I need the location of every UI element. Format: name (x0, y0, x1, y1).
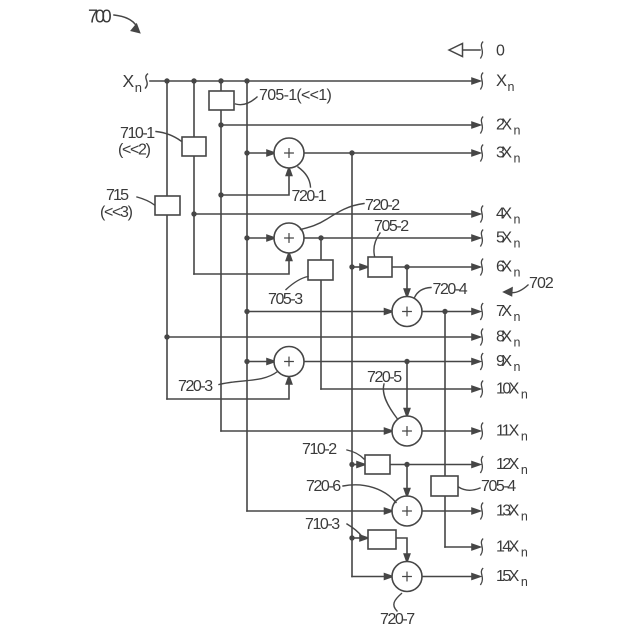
label 720-1 (292, 167, 327, 205)
label 720-6 (306, 478, 396, 503)
shift block 715 (155, 196, 180, 215)
svg-text:6X: 6X (496, 259, 512, 276)
label 710-1 (118, 125, 181, 159)
label 720-4 (415, 281, 468, 298)
wire 3Xn into 720-7 left (352, 574, 393, 580)
svg-text:710-3: 710-3 (305, 516, 340, 533)
wire 2Xn output line (221, 117, 483, 133)
wire 6Xn output line (392, 259, 483, 275)
svg-text:n: n (521, 463, 528, 477)
label 1Xn (496, 72, 515, 94)
label 705-3 (268, 277, 308, 309)
wire vertical 3Xn feed (x=352) (351, 153, 353, 577)
wire 7Xn output line (422, 304, 483, 320)
adder 720-3 (274, 347, 304, 377)
wire 13Xn output line (422, 503, 483, 519)
figure label 700 (88, 7, 140, 33)
svg-text:705-4: 705-4 (481, 478, 516, 495)
label 11Xn (496, 423, 528, 444)
label 13Xn (496, 503, 528, 524)
svg-text:n: n (514, 212, 521, 226)
node Xn bus to 715 (164, 78, 169, 83)
svg-text:X: X (496, 72, 507, 90)
adder 720-7 (392, 562, 422, 592)
label 6Xn (496, 259, 521, 280)
svg-text:715: 715 (106, 187, 129, 204)
label 720-2 (301, 197, 401, 230)
svg-text:705-3: 705-3 (268, 291, 303, 308)
wire 6Xn into 720-4 top (404, 267, 410, 297)
wire 3Xn into 705-2 (352, 264, 368, 270)
wire 14Xn output line (445, 539, 483, 555)
label 705-1 (236, 87, 332, 105)
label 715 (100, 187, 155, 221)
node 12Xn to 720-6 (404, 462, 409, 467)
svg-text:9X: 9X (496, 353, 512, 370)
svg-text:n: n (514, 123, 521, 137)
svg-text:7X: 7X (496, 303, 512, 320)
label 12Xn (496, 456, 528, 477)
node 5Xn tap (318, 235, 323, 240)
label 705-2 (374, 218, 409, 256)
adder 720-6 (392, 496, 422, 526)
svg-text:n: n (514, 236, 521, 250)
wire Xn into 720-4 left (247, 309, 393, 315)
wire 9Xn output line (303, 354, 483, 370)
node 3Xn to 710-3 (349, 535, 354, 540)
adder 720-2 (274, 223, 304, 253)
node 702 label with arrow (504, 275, 554, 296)
label 10Xn (496, 381, 528, 402)
svg-text:720-2: 720-2 (365, 197, 400, 214)
wire 4Xn into 720-2 bottom (194, 253, 292, 275)
svg-text:n: n (514, 265, 521, 279)
svg-text:n: n (521, 575, 528, 589)
wire 9Xn into 720-5 top (404, 362, 410, 417)
wire vertical from Xn bus into 710-1 and down to 4Xn (x=194) (193, 81, 195, 274)
wire 2Xn into 720-1 bottom (221, 168, 292, 196)
svg-text:n: n (521, 429, 528, 443)
input Xn label (123, 71, 148, 95)
adder 720-1 (274, 138, 304, 168)
wire 8Xn into 720-3 bottom (167, 376, 292, 399)
node Xn to 720-1 (244, 150, 249, 155)
svg-text:5X: 5X (496, 230, 512, 247)
wire vertical 7Xn through 705-4 down to 14Xn (x=445) (444, 312, 446, 548)
svg-text:(<<3): (<<3) (100, 204, 133, 221)
shift block 705-3 (308, 260, 333, 280)
label 705-4 (459, 478, 517, 495)
svg-text:2X: 2X (496, 117, 512, 134)
svg-text:11X: 11X (496, 423, 520, 440)
svg-text:700: 700 (88, 7, 112, 27)
label 5Xn (496, 230, 521, 251)
shift block 705-2 (368, 257, 392, 277)
label 9Xn (496, 353, 521, 374)
svg-text:X: X (123, 71, 135, 91)
svg-text:15X: 15X (496, 568, 520, 585)
svg-text:705-1(<<1): 705-1(<<1) (259, 87, 332, 104)
wire vertical Xn feed (x=247) (246, 81, 248, 511)
label 3Xn (496, 145, 521, 166)
node Xn to 720-4 (244, 309, 249, 314)
svg-text:13X: 13X (496, 503, 520, 520)
label 720-5 (367, 369, 402, 419)
adder 720-5 (392, 416, 422, 446)
node Xn bus to 710-1 (191, 78, 196, 83)
wire 11Xn output line (422, 423, 483, 439)
svg-text:720-5: 720-5 (367, 369, 402, 386)
wire vertical 5Xn through 705-3 down to 10Xn (x=321) (320, 238, 322, 389)
node 3Xn to 705-2 (349, 264, 354, 269)
svg-text:n: n (521, 509, 528, 523)
svg-text:702: 702 (529, 275, 554, 292)
svg-text:14X: 14X (496, 539, 520, 556)
wire 15Xn output line (422, 569, 483, 585)
wire 1Xn output line (150, 73, 483, 89)
node 6Xn to 720-4 (404, 264, 409, 269)
wire 3Xn into 710-2 (352, 462, 365, 468)
svg-text:720-7: 720-7 (380, 611, 415, 628)
svg-text:720-4: 720-4 (433, 281, 468, 298)
svg-text:3X: 3X (496, 145, 512, 162)
shift block 710-3 (368, 530, 396, 549)
svg-text:705-2: 705-2 (374, 218, 409, 235)
shift block 710-1 (182, 137, 206, 156)
wire 12Xn into 720-6 top (404, 465, 410, 497)
node Xn bus direct tap (244, 78, 249, 83)
shift block 705-4 (431, 476, 458, 496)
node Xn bus to 705-1 (218, 78, 223, 83)
shift block 710-2 (365, 455, 390, 474)
wire 3Xn into 710-3 (352, 535, 368, 541)
wire 10Xn output line (321, 381, 483, 397)
svg-text:n: n (521, 387, 528, 401)
wire vertical from Xn bus into 715 and down to 8Xn (x=167) (166, 81, 168, 399)
svg-text:n: n (514, 310, 521, 324)
wire vertical from Xn bus into 705-1 and down to 11Xn feed (x=221) (220, 81, 222, 431)
svg-text:720-1: 720-1 (292, 188, 327, 205)
label 2Xn (496, 117, 521, 138)
svg-text:4X: 4X (496, 206, 512, 223)
wire 12Xn output line (390, 457, 483, 473)
wire Xn into 720-6 left (247, 508, 393, 514)
node Xn to 720-3 (244, 359, 249, 364)
wire Xn into 720-3 left (247, 359, 275, 365)
svg-text:n: n (508, 80, 515, 94)
node 4Xn tap (191, 211, 196, 216)
label 15Xn (496, 568, 528, 589)
wire 2Xn into 720-5 left (221, 428, 393, 434)
label 14Xn (496, 539, 528, 560)
svg-text:n: n (135, 80, 142, 95)
wire Xn into 720-2 left (247, 235, 275, 241)
svg-text:720-6: 720-6 (306, 478, 341, 495)
svg-text:n: n (514, 335, 521, 349)
svg-text:8X: 8X (496, 329, 512, 346)
node 2Xn tap (218, 122, 223, 127)
label 8Xn (496, 329, 521, 350)
wire Xn into 720-1 left (247, 150, 275, 156)
svg-text:0: 0 (496, 42, 505, 59)
svg-text:n: n (514, 360, 521, 374)
label 4Xn (496, 206, 521, 227)
node 2Xn to 720-1 (218, 192, 223, 197)
node 9Xn to 720-5 (404, 359, 409, 364)
node 3Xn tap (349, 150, 354, 155)
node Xn to 720-2 (244, 235, 249, 240)
wire 710-3 output into 720-7 top (396, 538, 410, 562)
wire 8Xn output line (167, 329, 483, 345)
label 710-2 (302, 441, 364, 459)
label 720-7 (380, 594, 415, 629)
wire 5Xn output line (303, 230, 483, 246)
node 8Xn tap (164, 334, 169, 339)
node 7Xn tap (442, 309, 447, 314)
adder 720-4 (392, 297, 422, 327)
label 7Xn (496, 303, 521, 324)
node 3Xn to 710-2 (349, 462, 354, 467)
wire 4Xn output line (194, 206, 483, 222)
shift block 705-1 (209, 91, 234, 110)
output 0 with open left arrow (449, 42, 505, 59)
svg-text:n: n (521, 545, 528, 559)
svg-text:710-2: 710-2 (302, 441, 337, 458)
svg-text:10X: 10X (496, 381, 520, 398)
svg-text:710-1: 710-1 (120, 125, 155, 142)
label 720-3 (178, 372, 278, 396)
svg-text:n: n (514, 151, 521, 165)
label 710-3 (305, 516, 362, 537)
svg-text:(<<2): (<<2) (118, 142, 151, 159)
svg-text:12X: 12X (496, 456, 520, 473)
wire 3Xn output line (303, 145, 483, 161)
svg-text:720-3: 720-3 (178, 378, 213, 395)
